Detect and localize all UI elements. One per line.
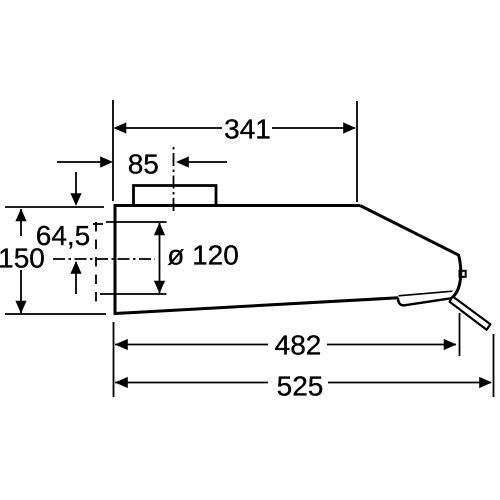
svg-text:341: 341 [224, 114, 271, 145]
svg-text:ø 120: ø 120 [167, 240, 239, 271]
svg-text:482: 482 [275, 330, 322, 361]
svg-text:85: 85 [128, 149, 159, 180]
svg-text:525: 525 [277, 371, 324, 402]
svg-text:150: 150 [0, 243, 45, 274]
